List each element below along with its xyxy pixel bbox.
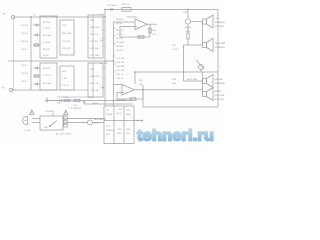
svg-text:C6 1n: C6 1n xyxy=(43,55,50,57)
svg-text:C14 100n: C14 100n xyxy=(107,5,117,7)
fuse FU101 xyxy=(64,107,82,127)
speaker SP2 mid xyxy=(203,39,226,52)
wire separator xyxy=(8,60,114,62)
svg-text:2SC1815: 2SC1815 xyxy=(90,27,100,29)
label column left upper xyxy=(21,25,29,51)
svg-text:SYSTEM: SYSTEM xyxy=(215,99,224,101)
svg-text:C5 1u: C5 1u xyxy=(21,65,28,67)
capacitor C14 top xyxy=(108,8,115,11)
wire B3 bottom xyxy=(57,90,88,97)
svg-text:C11 10u: C11 10u xyxy=(90,41,99,43)
wire U1 output xyxy=(147,23,157,25)
capacitor C1 xyxy=(33,24,40,27)
wire B+ out xyxy=(134,120,143,122)
IC block B1 xyxy=(40,63,57,90)
IC block A2 xyxy=(60,20,74,55)
wire bottom right xyxy=(143,106,218,108)
wire V+ rail xyxy=(104,10,106,107)
IC block B3 xyxy=(88,63,103,97)
potentiometer VR1 xyxy=(183,10,191,46)
resistor R20 feedback xyxy=(130,98,136,100)
svg-text:TRE: TRE xyxy=(183,12,188,14)
svg-text:R11 4.7k: R11 4.7k xyxy=(90,34,99,36)
resistor R16 xyxy=(149,28,151,33)
svg-text:MID-RA: MID-RA xyxy=(215,78,223,81)
label column rail upper xyxy=(116,19,125,52)
labels in B3 xyxy=(90,69,100,92)
capacitor C11 bus xyxy=(83,101,86,105)
junction dots xyxy=(30,9,189,122)
wire V- rail xyxy=(113,22,115,106)
svg-text:NE-2: NE-2 xyxy=(94,123,100,125)
speaker SP3 midrange xyxy=(203,75,226,88)
svg-text:4Ω 8Ω: 4Ω 8Ω xyxy=(215,91,222,93)
labels in B1 xyxy=(43,68,52,85)
op-amp U2 xyxy=(115,85,134,103)
resistor R15 top xyxy=(122,8,131,12)
svg-text:C2 10n: C2 10n xyxy=(43,28,51,30)
wire U1 feedback xyxy=(120,24,150,37)
svg-text:R4 22k: R4 22k xyxy=(116,19,124,21)
svg-text:C8 100n: C8 100n xyxy=(116,42,125,44)
svg-text:C4/3n: C4/3n xyxy=(92,103,99,105)
svg-text:R12 1.4k: R12 1.4k xyxy=(90,48,100,50)
node input jack J2 xyxy=(2,88,13,92)
resistor R11 bus xyxy=(74,99,80,101)
capacitor C5 xyxy=(33,67,40,70)
wire input bus xyxy=(30,17,32,90)
wire fuse to supply xyxy=(67,119,104,123)
svg-text:C12 22u: C12 22u xyxy=(116,58,125,60)
svg-text:C15 22u: C15 22u xyxy=(116,70,125,72)
svg-text:-50N: -50N xyxy=(185,31,190,33)
wire ground bus xyxy=(45,100,133,102)
label column left of rail xyxy=(99,14,108,89)
svg-text:R6 47k: R6 47k xyxy=(43,68,51,70)
power switch box SW101 xyxy=(40,111,63,130)
svg-text:AC 110V/ 220V: AC 110V/ 220V xyxy=(56,133,71,136)
svg-text:SPEAKER: SPEAKER xyxy=(215,82,226,85)
svg-text:115/230V: 115/230V xyxy=(45,111,55,113)
svg-text:C7 4.7u: C7 4.7u xyxy=(43,75,51,77)
svg-text:C15 10u: C15 10u xyxy=(90,90,99,92)
capacitor C9 bus xyxy=(52,99,61,102)
resistor R10 bus xyxy=(64,99,70,101)
svg-text:50V: 50V xyxy=(106,134,110,136)
svg-text:C22 10n: C22 10n xyxy=(62,41,71,43)
speaker SP1 tweeter xyxy=(203,15,226,28)
warning triangle 2 xyxy=(64,110,69,115)
svg-text:TDA2030A: TDA2030A xyxy=(115,99,126,102)
svg-text:C6 1u: C6 1u xyxy=(116,23,123,25)
rail pin ticks xyxy=(103,22,116,88)
svg-text:C17 1n: C17 1n xyxy=(62,85,70,87)
wire plug to box xyxy=(36,119,40,123)
wire input bottom xyxy=(11,89,57,91)
svg-text:C2 47u: C2 47u xyxy=(21,33,29,35)
svg-text:A-TW: A-TW xyxy=(185,26,192,29)
svg-text:C-10k: C-10k xyxy=(172,49,179,51)
wire U2 feedback xyxy=(117,90,143,99)
svg-text:C9 22u: C9 22u xyxy=(116,50,124,52)
svg-text:R14 680: R14 680 xyxy=(116,66,125,68)
svg-text:SPEAKER: SPEAKER xyxy=(215,46,226,49)
svg-text:R4/7k: R4/7k xyxy=(88,97,95,99)
wire input top xyxy=(13,16,105,18)
svg-text:R5 47k: R5 47k xyxy=(43,49,51,51)
svg-text:TR: TR xyxy=(106,110,109,112)
label TR101 xyxy=(106,109,131,136)
wire U2 in drop xyxy=(134,72,136,84)
wire ground bus 2 xyxy=(84,103,133,105)
svg-text:SYSTEM: SYSTEM xyxy=(215,26,224,28)
wire U2 output xyxy=(134,89,203,91)
svg-text:R1 15k: R1 15k xyxy=(43,22,51,24)
svg-text:L-HF: L-HF xyxy=(215,18,221,20)
svg-text:TWEETER: TWEETER xyxy=(215,43,226,45)
wire mid return xyxy=(135,71,218,73)
svg-text:tehneri.ru: tehneri.ru xyxy=(137,128,214,145)
svg-text:C4 10n: C4 10n xyxy=(43,42,51,44)
warning triangle 1 xyxy=(30,110,35,115)
potentiometer VR2 xyxy=(196,60,204,72)
svg-text:R1 47k: R1 47k xyxy=(21,25,29,27)
svg-text:C8 1u: C8 1u xyxy=(21,81,28,83)
capacitor C3 xyxy=(33,34,40,37)
svg-text:C4 1u: C4 1u xyxy=(21,49,28,51)
svg-text:T3.15A 250V: T3.15A 250V xyxy=(69,107,82,110)
labels in A1 xyxy=(43,22,52,57)
svg-text:+35V: +35V xyxy=(117,109,123,111)
svg-text:R3 100k: R3 100k xyxy=(43,35,52,37)
svg-text:C1 1u: C1 1u xyxy=(99,14,106,16)
svg-text:C12 100n: C12 100n xyxy=(90,55,100,57)
wire shield xyxy=(13,17,15,90)
svg-text:R15 1k: R15 1k xyxy=(116,74,124,76)
resistor R3 xyxy=(33,44,40,46)
wire top rail xyxy=(105,9,218,11)
svg-text:TO AC: TO AC xyxy=(24,129,31,132)
svg-text:2SC1815: 2SC1815 xyxy=(90,76,100,78)
capacitor C8 xyxy=(33,83,40,86)
svg-text:R8 100k: R8 100k xyxy=(43,83,52,85)
label column rail lower xyxy=(116,58,125,80)
labels in A3 xyxy=(90,20,100,57)
lamp NE101 xyxy=(88,118,107,125)
node input jack J1 xyxy=(3,14,15,19)
svg-text:C16 1u: C16 1u xyxy=(116,78,124,80)
svg-text:WOOFER: WOOFER xyxy=(215,95,225,97)
label column left lower xyxy=(21,65,29,83)
ground symbol 1 xyxy=(45,97,49,103)
svg-text:100n: 100n xyxy=(117,133,123,135)
IC block A1 xyxy=(40,16,57,58)
svg-text:TDA2030A: TDA2030A xyxy=(126,16,137,19)
labels in B2 xyxy=(62,71,70,87)
svg-text:R7 22k: R7 22k xyxy=(21,73,29,75)
svg-text:R3 10k: R3 10k xyxy=(21,41,29,43)
resistor R9 feedback xyxy=(138,36,144,38)
svg-text:R6 22k: R6 22k xyxy=(116,38,124,40)
wire to U1 input xyxy=(114,21,136,23)
svg-text:35A: 35A xyxy=(126,113,130,116)
AC plug P1 xyxy=(23,117,36,133)
resistor R7 xyxy=(33,75,40,77)
svg-text:SPEAKER: SPEAKER xyxy=(215,21,226,24)
svg-text:R22 47k: R22 47k xyxy=(62,48,71,50)
power supply box T101 xyxy=(104,106,134,144)
wire to U2 input xyxy=(114,84,123,86)
svg-text:R14 1.4k: R14 1.4k xyxy=(90,83,100,85)
labels in A2 xyxy=(62,25,72,50)
svg-text:500VA: 500VA xyxy=(106,113,113,116)
wire mid branch xyxy=(184,45,203,94)
svg-text:2M: 2M xyxy=(57,103,60,105)
wire tweeter-mid link xyxy=(202,22,204,46)
svg-text:R7 680: R7 680 xyxy=(116,46,124,48)
speaker SP4 woofer xyxy=(203,88,225,102)
svg-text:R13 22k: R13 22k xyxy=(116,62,125,64)
IC block B2 xyxy=(60,66,74,90)
svg-text:A-7N-50M: A-7N-50M xyxy=(187,78,197,81)
svg-text:C9 1n: C9 1n xyxy=(63,97,70,99)
op-amp U1 xyxy=(126,16,147,30)
wire U2 feedback drop xyxy=(142,90,144,107)
svg-text:R21 220k: R21 220k xyxy=(62,33,72,35)
IC block A3 xyxy=(88,15,103,58)
svg-text:R15 1k: R15 1k xyxy=(122,4,130,6)
svg-text:R9 10k: R9 10k xyxy=(100,63,108,65)
wire pot to tweeter xyxy=(191,21,203,23)
wire right border xyxy=(217,10,219,108)
svg-text:10000u: 10000u xyxy=(106,130,114,132)
